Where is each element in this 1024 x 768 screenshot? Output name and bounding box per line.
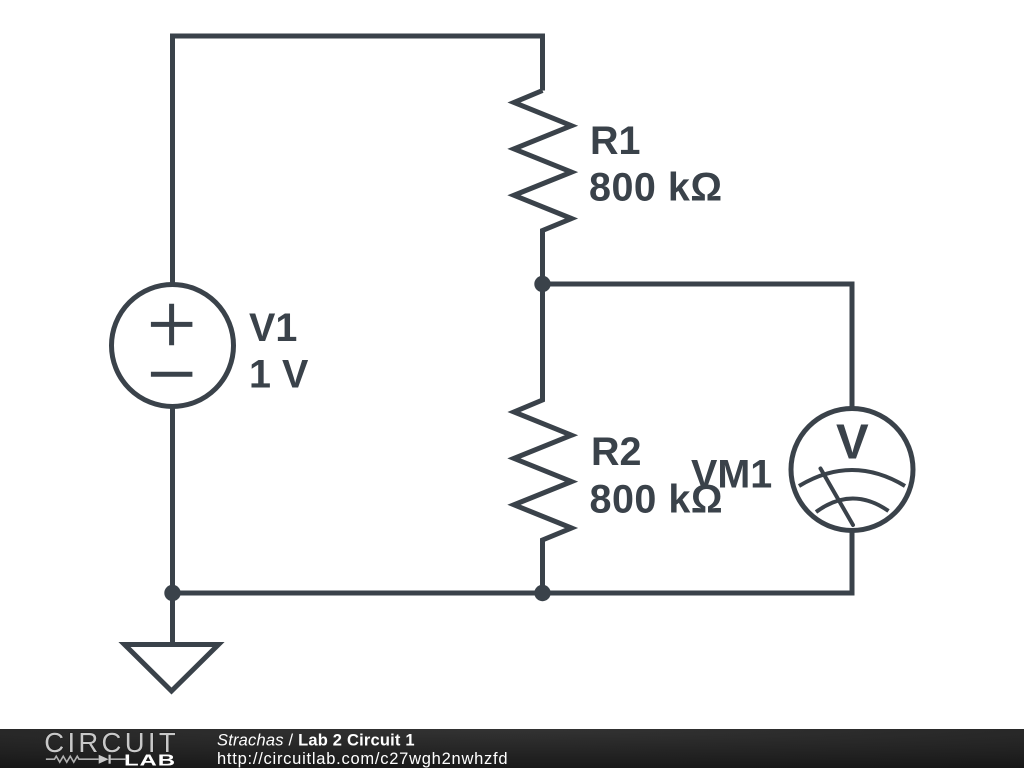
V1 plus sign [151,304,193,346]
wire: bottom rail and VM1 bottom lead [173,530,853,593]
svg-text:800 kΩ: 800 kΩ [589,166,723,210]
svg-text:R2: R2 [591,430,642,474]
ground lead [170,593,175,645]
node C (V1/ground junction) [164,585,180,601]
svg-text:VM1: VM1 [691,453,772,497]
logo diode bar [108,755,110,764]
node B (R2/VM1 bottom junction) [534,585,550,601]
resistor R1 [514,91,572,285]
svg-text:V: V [836,416,869,470]
voltmeter VM1 circle [791,409,913,531]
node A (R1/R2/VM1 junction) [534,276,550,292]
svg-text:1 V: 1 V [249,353,309,397]
logo diode triangle [99,755,109,764]
logo resistor-diode line [46,756,126,762]
VM1 needle [821,469,854,526]
VM1 meter scale arc upper [799,470,905,486]
wire: V1 bottom lead [170,406,175,593]
svg-text:Strachas / Lab 2 Circuit 1: Strachas / Lab 2 Circuit 1 [217,731,415,749]
wire: V1 top up and across to R1 top [173,36,543,285]
svg-text:http://circuitlab.com/c27wgh2n: http://circuitlab.com/c27wgh2nwhzfd [217,750,508,768]
voltage source V1 circle [112,285,234,407]
resistor R2 [514,284,572,593]
svg-text:LAB: LAB [124,752,176,768]
svg-text:R1: R1 [590,119,641,163]
V1 minus sign [151,372,193,377]
footer bar [0,729,1024,768]
ground triangle [125,645,219,692]
svg-text:V1: V1 [249,306,297,350]
VM1 meter scale arc lower [816,498,889,512]
wire: node A across to VM1 top [543,284,853,409]
